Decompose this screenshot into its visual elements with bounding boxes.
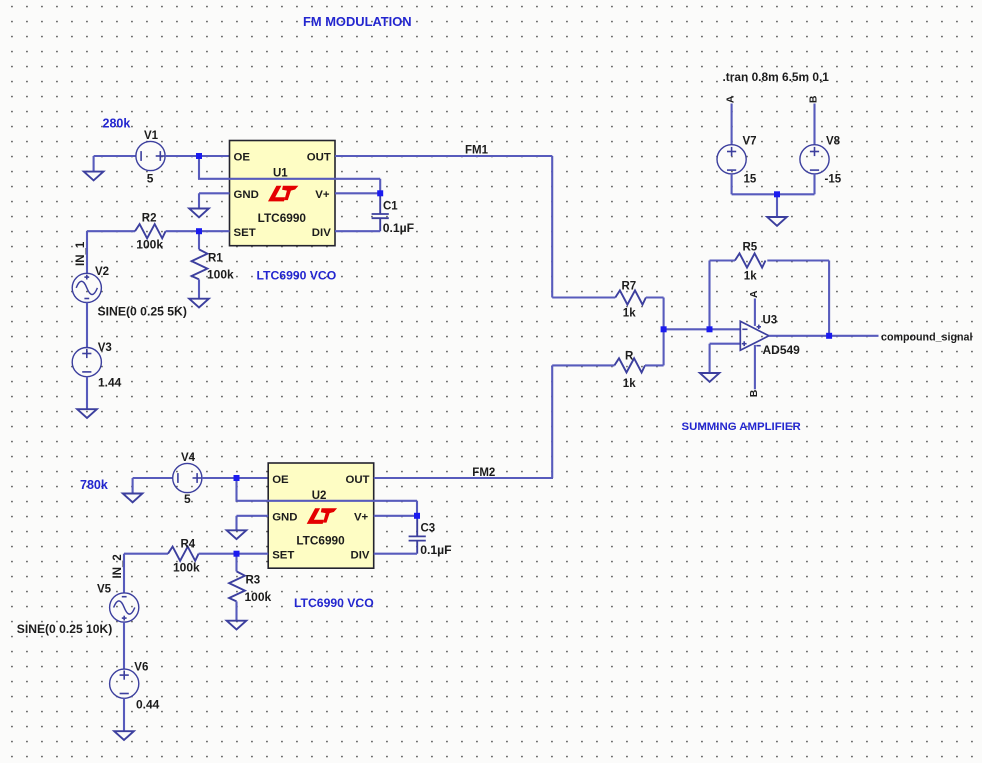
voltage source V7: [717, 145, 746, 174]
wire V5 to V6: [123, 622, 125, 669]
wire A to V7: [731, 104, 733, 145]
wire across U2 to V+: [236, 500, 418, 502]
wire R up to sum node: [663, 329, 665, 365]
resistor R7: [615, 290, 646, 304]
svg-text:SET: SET: [234, 227, 256, 239]
wire R right: [645, 364, 664, 366]
wire V4 to OE pin U2: [202, 477, 268, 479]
svg-text:OUT: OUT: [307, 152, 331, 164]
svg-text:SET: SET: [272, 550, 294, 562]
resistor R3: [229, 571, 245, 601]
wire output (net compound_signal): [769, 335, 879, 337]
svg-text:780k: 780k: [80, 478, 108, 492]
wire R5 right: [767, 259, 829, 261]
wire FM2 to R: [552, 364, 614, 366]
wire ground5 to V4: [133, 477, 173, 479]
svg-text:FM1: FM1: [465, 145, 489, 157]
wire V7 down: [731, 174, 733, 194]
svg-text:OE: OE: [234, 152, 251, 164]
svg-text:LTC6990 VCO: LTC6990 VCO: [294, 596, 374, 610]
svg-text:R7: R7: [622, 281, 637, 293]
wire DIV pin U2 to C3: [374, 553, 417, 555]
wire R5 to output node: [828, 261, 830, 336]
junction node SET: [196, 228, 202, 234]
wire V1 to OE pin: [165, 155, 230, 157]
op-amp U3 AD549: [740, 299, 769, 390]
svg-text:V6: V6: [134, 662, 148, 674]
junction node SET U2: [234, 551, 240, 557]
svg-text:100k: 100k: [245, 590, 272, 604]
svg-text:280k: 280k: [103, 116, 131, 130]
svg-text:V4: V4: [181, 452, 196, 464]
svg-text:V2: V2: [95, 266, 109, 278]
svg-text:SINE(0 0.25 10K): SINE(0 0.25 10K): [17, 622, 112, 636]
svg-text:GND: GND: [234, 189, 259, 201]
wire SET row to V2: [86, 231, 88, 273]
wire V+ pin: [335, 192, 380, 194]
wire to ground2: [198, 193, 200, 208]
wire down to ground1: [93, 156, 95, 172]
wire to ground6: [235, 516, 237, 531]
svg-text:V5: V5: [97, 584, 112, 596]
wire V+ pin U2: [374, 515, 417, 517]
wire to ground9: [776, 194, 778, 217]
wire R7 right: [646, 296, 664, 298]
svg-text:0.44: 0.44: [136, 698, 160, 712]
sine source V2: [72, 273, 101, 302]
wire DIV pin to C1: [335, 230, 380, 232]
svg-text:R4: R4: [181, 538, 196, 550]
svg-text:.tran 0.8m 6.5m 0,1: .tran 0.8m 6.5m 0,1: [723, 70, 830, 84]
svg-text:5: 5: [184, 492, 191, 506]
junction node OE/V1: [196, 153, 202, 159]
ground (non-inverting): [700, 373, 720, 382]
wire down to ground5: [132, 478, 134, 494]
wire V6 to ground8: [123, 698, 125, 731]
svg-text:V+: V+: [354, 511, 369, 523]
svg-text:SUMMING AMPLIFIER: SUMMING AMPLIFIER: [682, 421, 801, 433]
LT logo U2: [307, 508, 337, 524]
capacitor C1: [372, 193, 389, 231]
svg-text:LTC6990: LTC6990: [296, 534, 345, 548]
svg-text:V3: V3: [98, 342, 112, 354]
svg-text:1.44: 1.44: [98, 376, 122, 390]
voltage source V8: [800, 145, 829, 174]
wire IN_1 to R2: [87, 230, 135, 232]
svg-text:C1: C1: [383, 201, 398, 213]
capacitor C3: [409, 516, 426, 554]
resistor R2: [135, 224, 166, 238]
ground (V1 negative): [84, 172, 104, 181]
voltage source V4: [173, 463, 202, 492]
resistor R1 zigzag: [192, 249, 208, 279]
svg-text:1k: 1k: [744, 270, 757, 282]
resistor R5: [735, 253, 766, 267]
ground (V4 negative): [123, 494, 143, 503]
svg-text:1k: 1k: [623, 378, 636, 390]
resistor R4: [168, 547, 199, 561]
op-block U1 LTC6990 body: [230, 141, 336, 246]
svg-text:5: 5: [147, 172, 154, 186]
resistor R1: [198, 231, 200, 249]
wire R2 to SET pin: [166, 230, 230, 232]
LT logo U1: [268, 186, 298, 202]
wire ground1 to V1 minus: [94, 155, 137, 157]
wire across U1 to V+: [198, 178, 380, 180]
svg-text:AD549: AD549: [763, 343, 801, 357]
wire V3 to ground4: [86, 377, 88, 410]
ground (V6): [114, 731, 134, 740]
svg-text:0.1µF: 0.1µF: [383, 221, 414, 235]
svg-text:A: A: [725, 95, 737, 103]
svg-text:LTC6990 VCO: LTC6990 VCO: [257, 269, 337, 283]
svg-text:SINE(0 0.25 5K): SINE(0 0.25 5K): [98, 304, 187, 318]
svg-text:0.1µF: 0.1µF: [420, 543, 451, 557]
svg-text:100k: 100k: [136, 237, 163, 251]
svg-text:V8: V8: [826, 136, 841, 148]
svg-text:R1: R1: [208, 252, 223, 264]
svg-text:DIV: DIV: [312, 227, 331, 239]
wire FM2 vertical: [551, 365, 553, 478]
junction node V+/C3: [414, 513, 420, 519]
wire FM1 vertical: [551, 156, 553, 298]
wire to ground10: [709, 344, 711, 373]
svg-text:V7: V7: [743, 136, 757, 148]
svg-text:LTC6990: LTC6990: [258, 211, 307, 225]
wire FM1 to R7: [552, 296, 615, 298]
ground (supplies): [767, 217, 787, 226]
sine source V5: [110, 593, 139, 622]
svg-text:100k: 100k: [207, 268, 234, 282]
svg-text:B: B: [807, 95, 819, 103]
wire OE junction down: [198, 156, 200, 179]
wire R5 to inverting node: [708, 261, 710, 330]
junction output/R5: [826, 333, 832, 339]
wire V2 to V3: [86, 303, 88, 348]
svg-text:OE: OE: [272, 474, 289, 486]
voltage source V6: [110, 669, 139, 698]
svg-text:V1: V1: [144, 130, 159, 142]
ground (V3): [77, 409, 97, 418]
junction inverting/R5: [707, 326, 713, 332]
svg-text:OUT: OUT: [345, 474, 369, 486]
svg-text:100k: 100k: [173, 560, 200, 574]
wire B to V8: [813, 104, 815, 145]
voltage source V1: [136, 141, 165, 170]
ground (U2 GND): [227, 530, 247, 539]
ground (U1 GND): [189, 209, 209, 218]
svg-text:-15: -15: [825, 174, 842, 186]
svg-text:R3: R3: [246, 575, 261, 587]
wire OUT U2 (net FM2): [374, 477, 553, 479]
wire SET row to V5: [123, 554, 125, 593]
svg-text:R: R: [625, 350, 634, 362]
resistor R3 lead: [235, 554, 237, 572]
svg-text:A: A: [748, 290, 760, 298]
wire R4 to SET pin U2: [199, 553, 269, 555]
wire down to V+ node: [379, 179, 381, 194]
junction node OE/V4: [234, 475, 240, 481]
wire non-inverting input: [710, 343, 741, 345]
ground (R1): [189, 299, 209, 308]
svg-text:R5: R5: [743, 241, 758, 253]
svg-text:15: 15: [744, 174, 757, 186]
voltage source V3: [72, 348, 101, 377]
wire R5 left: [710, 259, 735, 261]
junction sum node: [661, 326, 667, 332]
wire R7 down to sum node: [663, 298, 665, 330]
wire IN_2 to R4: [124, 553, 168, 555]
svg-text:FM2: FM2: [472, 467, 495, 479]
svg-text:1k: 1k: [623, 307, 636, 319]
ground (R3): [227, 621, 247, 630]
wire GND pin U1: [199, 192, 230, 194]
svg-text:compound_signal: compound_signal: [881, 332, 972, 344]
resistor R: [614, 358, 645, 372]
junction node V+/C1: [377, 190, 383, 196]
svg-text:IN_1: IN_1: [75, 241, 87, 266]
svg-text:R2: R2: [142, 212, 157, 224]
wire OE junction down (U2): [235, 478, 237, 501]
svg-text:GND: GND: [272, 511, 297, 523]
junction supplies common: [774, 191, 780, 197]
wire OUT U1 (net FM1): [335, 155, 552, 157]
svg-text:C3: C3: [421, 523, 436, 535]
svg-text:B: B: [748, 389, 760, 397]
svg-text:DIV: DIV: [351, 550, 370, 562]
svg-text:IN_2: IN_2: [112, 554, 124, 578]
op-block U2 LTC6990 body: [268, 463, 374, 568]
svg-text:U3: U3: [763, 314, 778, 326]
wire R3 to ground7: [235, 601, 237, 620]
wire GND pin U2: [237, 515, 269, 517]
wire R1 to ground3: [198, 279, 200, 298]
svg-text:V+: V+: [315, 189, 330, 201]
wire V8 down: [813, 174, 815, 194]
svg-text:FM MODULATION: FM MODULATION: [303, 14, 412, 29]
wire down to V+ node (U2): [416, 501, 418, 516]
wire V7-V8 common: [732, 193, 815, 195]
wire sum node to inverting input: [664, 328, 741, 330]
